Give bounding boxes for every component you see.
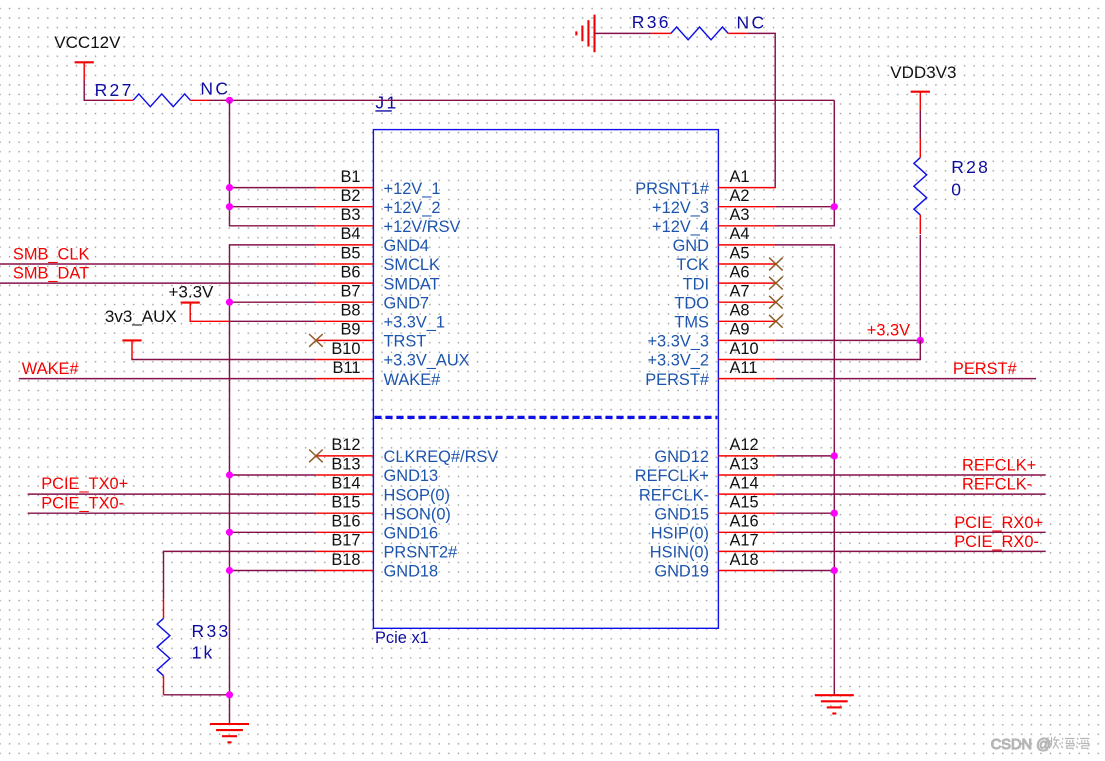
svg-text:PCIE_RX0-: PCIE_RX0-	[954, 533, 1039, 551]
svg-text:PERST#: PERST#	[953, 360, 1018, 378]
node A18 junction	[831, 567, 838, 574]
svg-text:REFCLK+: REFCLK+	[962, 457, 1036, 475]
svg-text:TMS: TMS	[674, 314, 709, 332]
svg-text:GND13: GND13	[384, 467, 439, 485]
no-connect X on A7	[769, 296, 783, 309]
svg-text:B18: B18	[331, 551, 360, 569]
wire A4 to GND bus right	[775, 245, 834, 695]
pin A6 TDI	[683, 263, 776, 293]
node A2 junction	[831, 203, 838, 210]
pin A18 GND19	[654, 551, 775, 581]
svg-text:B16: B16	[331, 513, 360, 531]
no-connect X on A5	[769, 258, 783, 271]
wire B18 to GND bus	[230, 570, 317, 572]
wire VCC12V to R27	[84, 81, 114, 101]
wire PCIE_RX0- from A17	[776, 550, 1046, 552]
svg-text:PRSNT2#: PRSNT2#	[384, 544, 459, 562]
svg-text:A16: A16	[730, 513, 759, 531]
svg-text:HSON(0): HSON(0)	[384, 505, 451, 523]
node B1 junction	[226, 184, 233, 191]
resistor R33	[157, 599, 230, 695]
svg-text:SMB_DAT: SMB_DAT	[13, 264, 89, 282]
wire B4 to GND bus	[230, 245, 316, 724]
svg-text:B15: B15	[331, 494, 360, 512]
power 3v3_AUX bar symbol	[122, 340, 141, 359]
svg-text:SMDAT: SMDAT	[384, 275, 440, 293]
svg-text:A18: A18	[730, 551, 759, 569]
svg-text:A11: A11	[730, 359, 758, 377]
designator J1	[375, 92, 398, 112]
ground symbol top left (rotated)	[593, 15, 595, 53]
svg-text:TDO: TDO	[674, 294, 709, 312]
wire VDD3V3 to R28	[919, 110, 921, 138]
svg-text:TRST: TRST	[384, 333, 427, 351]
wire +3.3V to B8	[229, 320, 316, 322]
svg-text:B3: B3	[340, 206, 360, 224]
ground symbol bottom left	[210, 723, 249, 725]
wire REFCLK+ from A13	[776, 474, 1046, 476]
node NC junction	[226, 97, 233, 104]
node A15 junction	[831, 510, 838, 517]
svg-text:A1: A1	[730, 168, 750, 186]
svg-text:A14: A14	[730, 474, 759, 492]
wire R27 to junction	[209, 99, 229, 101]
wire PCIE_TX0+ to B14	[28, 493, 317, 495]
svg-text:A12: A12	[730, 436, 759, 454]
pin B3 +12V/RSV	[316, 206, 460, 236]
svg-text:A13: A13	[730, 455, 759, 473]
svg-text:J1: J1	[375, 92, 398, 112]
svg-text:B8: B8	[340, 302, 360, 320]
wire R28 to +3.3V node	[919, 235, 921, 341]
svg-text:+3.3V: +3.3V	[169, 283, 215, 302]
pin A13 REFCLK+	[635, 455, 776, 485]
svg-text:CLKREQ#/RSV: CLKREQ#/RSV	[384, 448, 499, 466]
svg-text:B11: B11	[333, 359, 361, 377]
resistor R28	[914, 139, 990, 235]
svg-text:GND: GND	[673, 237, 710, 255]
node +3.3V junction	[917, 337, 924, 344]
wire A15 to GND bus	[776, 512, 835, 514]
pin B18 GND18	[316, 551, 438, 581]
pin B5 SMCLK	[316, 244, 440, 274]
node B18 junction	[226, 567, 233, 574]
pin B15 HSON(0)	[316, 494, 451, 524]
wire +3.3V node down to A10	[775, 340, 920, 359]
svg-text:VCC12V: VCC12V	[54, 33, 121, 52]
svg-text:NC: NC	[737, 12, 767, 32]
svg-text:A2: A2	[730, 187, 750, 205]
pin B9 TRST	[316, 321, 426, 351]
svg-text:A15: A15	[730, 494, 759, 512]
pin B1 +12V_1	[316, 168, 440, 198]
svg-text:B4: B4	[340, 225, 360, 243]
J1 key divider dashed line	[374, 416, 717, 419]
wire R33 bottom to GND bus	[164, 694, 230, 696]
svg-text:GND4: GND4	[384, 237, 430, 255]
svg-text:3v3_AUX: 3v3_AUX	[105, 307, 177, 326]
pin B16 GND16	[316, 513, 438, 543]
no-connect X on A6	[769, 277, 783, 290]
svg-text:A17: A17	[730, 532, 759, 550]
svg-text:+3.3V_3: +3.3V_3	[647, 333, 709, 351]
svg-text:REFCLK-: REFCLK-	[962, 476, 1032, 494]
svg-text:+12V_3: +12V_3	[652, 199, 709, 217]
svg-text:+3.3V: +3.3V	[867, 322, 910, 340]
svg-text:REFCLK+: REFCLK+	[635, 467, 709, 485]
node A12 junction	[831, 452, 838, 459]
svg-text:SMCLK: SMCLK	[384, 256, 441, 274]
resistor R36	[632, 12, 748, 40]
power VCC12V bar symbol	[75, 62, 94, 80]
svg-text:GND19: GND19	[654, 563, 709, 581]
watermark	[991, 737, 1090, 754]
pin A4 GND	[673, 225, 776, 255]
wire junction to B2	[230, 206, 317, 208]
svg-text:A8: A8	[730, 302, 750, 320]
wire SMB_DAT to B6	[0, 282, 316, 284]
wire 3v3_AUX to B10	[132, 359, 316, 360]
pin B7 GND7	[316, 283, 429, 313]
pin B12 CLKREQ#/RSV	[316, 436, 498, 466]
wire B7 to GND bus	[230, 301, 317, 303]
wire R36 to A1	[747, 33, 775, 187]
pin A10 +3.3V_2	[647, 340, 775, 370]
node B7 junction	[226, 299, 233, 306]
svg-text:+12V_2: +12V_2	[384, 199, 441, 217]
wire A2 to +12V rail	[776, 206, 835, 208]
svg-text:PCIE_TX0+: PCIE_TX0+	[41, 475, 128, 493]
wire WAKE# to B11	[19, 378, 316, 380]
pin B11 WAKE#	[316, 359, 441, 389]
svg-text:PERST#: PERST#	[645, 371, 710, 389]
pin B6 SMDAT	[316, 263, 440, 293]
power +3.3V bar symbol (left)	[181, 303, 230, 322]
pin B14 HSOP(0)	[316, 474, 450, 504]
node B13 junction	[226, 471, 233, 478]
pin A16 HSIP(0)	[651, 513, 776, 543]
svg-text:A10: A10	[730, 340, 759, 358]
wire +12V right corner to A2 A3	[775, 100, 834, 226]
svg-text:B9: B9	[340, 321, 360, 339]
svg-text:A9: A9	[730, 321, 750, 339]
pin A11 PERST#	[645, 359, 775, 389]
pin A2 +12V_3	[652, 187, 776, 217]
connector J1 body	[373, 130, 718, 629]
svg-text:R28: R28	[951, 157, 990, 177]
svg-text:NC: NC	[200, 78, 230, 98]
wire B17 to R33	[164, 551, 316, 599]
pin B10 +3.3V_AUX	[316, 340, 470, 370]
svg-text:Pcie x1: Pcie x1	[375, 629, 429, 647]
svg-text:TDI: TDI	[683, 275, 709, 293]
wire B13 to GND bus	[230, 474, 317, 476]
resistor R27	[95, 80, 210, 107]
svg-text:A7: A7	[730, 283, 750, 301]
wire PERST# from A11	[776, 378, 1036, 380]
pin A9 +3.3V_3	[647, 321, 775, 351]
pin A3 +12V_4	[652, 206, 776, 236]
svg-text:0: 0	[951, 180, 963, 200]
pin B17 PRSNT2#	[316, 532, 458, 562]
wire PCIE_RX0+ from A16	[776, 531, 1046, 533]
svg-text:+3.3V_2: +3.3V_2	[647, 352, 709, 370]
wire B16 to GND bus	[230, 531, 317, 533]
no-connect X on B9	[309, 334, 323, 347]
svg-text:B12: B12	[331, 436, 360, 454]
svg-text:VDD3V3: VDD3V3	[890, 63, 956, 82]
svg-text:B7: B7	[340, 283, 360, 301]
svg-text:HSIN(0): HSIN(0)	[650, 544, 709, 562]
wire +12V down to B pins	[230, 100, 316, 226]
svg-text:B17: B17	[331, 532, 360, 550]
svg-text:B10: B10	[331, 340, 360, 358]
svg-text:HSOP(0): HSOP(0)	[384, 486, 450, 504]
pin B2 +12V_2	[316, 187, 440, 217]
pin A7 TDO	[674, 283, 775, 313]
svg-text:B1: B1	[340, 168, 360, 186]
no-connect X on B12	[309, 450, 323, 463]
svg-text:+12V_1: +12V_1	[384, 180, 441, 198]
pin A5 TCK	[676, 244, 775, 274]
svg-text:PCIE_RX0+: PCIE_RX0+	[954, 514, 1043, 532]
svg-text:B14: B14	[331, 474, 360, 492]
svg-text:+12V/RSV: +12V/RSV	[384, 218, 461, 236]
svg-text:A3: A3	[730, 206, 750, 224]
wire A12 to GND bus	[776, 455, 835, 457]
wire PCIE_TX0- to B15	[28, 512, 317, 514]
node R33 GND junction	[226, 691, 233, 698]
pin A14 REFCLK-	[639, 474, 776, 504]
svg-text:GND15: GND15	[654, 505, 709, 523]
svg-text:WAKE#: WAKE#	[22, 360, 80, 378]
node B2 junction	[226, 203, 233, 210]
svg-text:R27: R27	[95, 80, 134, 100]
svg-text:HSIP(0): HSIP(0)	[651, 525, 709, 543]
svg-text:+3.3V_1: +3.3V_1	[384, 314, 446, 332]
pin A8 TMS	[674, 302, 775, 332]
svg-text:PCIE_TX0-: PCIE_TX0-	[41, 494, 124, 512]
svg-text:B5: B5	[340, 244, 360, 262]
no-connect X on A8	[769, 315, 783, 328]
svg-text:1k: 1k	[192, 642, 215, 662]
svg-text:PRSNT1#: PRSNT1#	[635, 180, 710, 198]
pin A12 GND12	[654, 436, 775, 466]
svg-text:R33: R33	[192, 621, 231, 641]
node B16 junction	[226, 529, 233, 536]
pin A15 GND15	[654, 494, 775, 524]
wire +12V rail top	[230, 99, 835, 101]
svg-text:B2: B2	[340, 187, 360, 205]
svg-text:GND16: GND16	[384, 525, 439, 543]
pin A1 PRSNT1#	[635, 168, 775, 198]
svg-text:B6: B6	[340, 263, 360, 281]
svg-text:CSDN @: CSDN @	[991, 737, 1051, 753]
pin B13 GND13	[316, 455, 438, 485]
ground symbol bottom right	[815, 694, 854, 696]
wire SMB_CLK to B5	[0, 263, 316, 265]
svg-text:GND12: GND12	[654, 448, 709, 466]
svg-text:A6: A6	[730, 263, 750, 281]
svg-text:+12V_4: +12V_4	[652, 218, 709, 236]
power VDD3V3 bar symbol	[911, 92, 930, 110]
wire ground to R36	[595, 32, 652, 34]
pin A17 HSIN(0)	[650, 532, 776, 562]
svg-text:A5: A5	[730, 244, 750, 262]
pin B8 +3.3V_1	[316, 302, 445, 332]
svg-text:GND18: GND18	[384, 563, 439, 581]
svg-text:REFCLK-: REFCLK-	[639, 486, 709, 504]
svg-text:SMB_CLK: SMB_CLK	[13, 245, 90, 263]
svg-text:TCK: TCK	[676, 256, 709, 274]
svg-text:WAKE#: WAKE#	[384, 371, 442, 389]
wire A18 to GND bus	[776, 570, 835, 572]
svg-text:R36: R36	[632, 12, 671, 32]
pin B4 GND4	[316, 225, 429, 255]
wire junction to B1	[230, 187, 317, 189]
svg-text:GND7: GND7	[384, 294, 430, 312]
svg-text:B13: B13	[331, 455, 360, 473]
wire REFCLK- from A14	[776, 493, 1046, 495]
svg-text:+3.3V_AUX: +3.3V_AUX	[384, 352, 470, 370]
wire A9 to +3.3V node	[776, 339, 921, 341]
svg-text:A4: A4	[730, 225, 750, 243]
